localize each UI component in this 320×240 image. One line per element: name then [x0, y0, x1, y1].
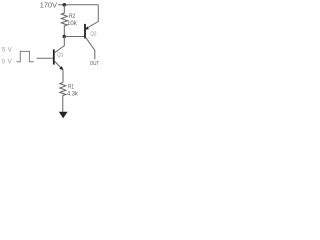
node 170V supply label [40, 1, 57, 10]
wire top rail [58, 5, 98, 22]
wire Q2 base [64, 36, 84, 38]
node 5V level label [2, 47, 12, 53]
transistor Q1 (NPN) [54, 37, 65, 72]
node junction dot Q2 base net [63, 35, 67, 39]
svg-text:0: 0 [2, 59, 6, 65]
resistor R2 [61, 5, 77, 37]
svg-text:170V: 170V [40, 1, 57, 10]
svg-text:Q1: Q1 [57, 53, 63, 59]
node 0V level label [2, 59, 12, 65]
svg-text:5: 5 [2, 47, 6, 53]
node OUT label [90, 61, 100, 67]
svg-text:V: V [8, 59, 12, 65]
ground (arrow to ground) [59, 112, 68, 118]
wire Q1 emitter to R1 [62, 70, 64, 83]
transistor Q2 (PNP) [84, 22, 98, 60]
svg-text:V: V [8, 47, 12, 53]
input pulse waveform [17, 51, 34, 61]
svg-text:OUT: OUT [90, 61, 100, 67]
svg-text:10k: 10k [67, 20, 77, 27]
wire Q1 base input [37, 57, 54, 59]
resistor R1 [60, 83, 79, 113]
node junction dot top rail [63, 3, 67, 7]
svg-text:4.3k: 4.3k [67, 90, 79, 97]
svg-text:Q2: Q2 [90, 31, 96, 37]
